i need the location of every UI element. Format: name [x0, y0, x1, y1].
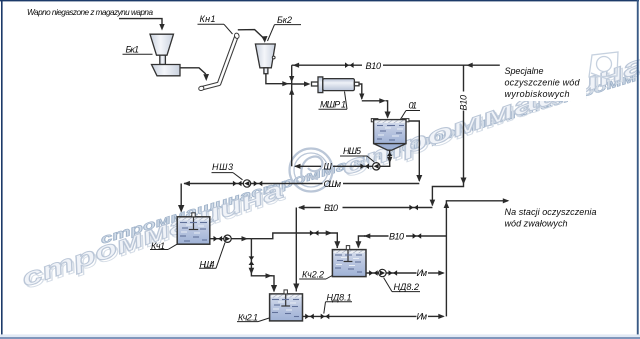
svg-text:Ш: Ш — [324, 162, 333, 172]
svg-text:Им: Им — [417, 312, 428, 322]
svg-text:Кч1: Кч1 — [151, 241, 165, 251]
svg-text:НШ5: НШ5 — [343, 146, 362, 156]
svg-text:В10: В10 — [459, 95, 469, 111]
svg-text:НШ4: НШ4 — [200, 259, 215, 269]
svg-text:wyrobiskowych: wyrobiskowych — [505, 89, 570, 99]
svg-text:В10: В10 — [389, 231, 404, 241]
svg-text:01: 01 — [409, 101, 418, 111]
svg-text:В10: В10 — [366, 61, 382, 71]
svg-text:Кч2.2: Кч2.2 — [302, 269, 324, 279]
svg-text:В10: В10 — [324, 203, 338, 213]
svg-text:МШР 1: МШР 1 — [320, 99, 346, 109]
svg-text:oczyszczenie wód: oczyszczenie wód — [505, 77, 581, 87]
svg-text:Бк2: Бк2 — [277, 15, 292, 25]
svg-text:НД8.2: НД8.2 — [394, 282, 420, 292]
svg-text:Na stacji oczyszczenia: Na stacji oczyszczenia — [505, 207, 597, 217]
svg-text:Wapno niegaszone z magazynu wa: Wapno niegaszone z magazynu wapna — [27, 8, 153, 17]
svg-text:wód zwałowych: wód zwałowych — [505, 219, 568, 229]
svg-text:Бк1: Бк1 — [126, 45, 140, 55]
svg-text:НД8.1: НД8.1 — [327, 292, 352, 302]
svg-text:Кн1: Кн1 — [200, 14, 216, 24]
svg-text:ОШм: ОШм — [324, 179, 342, 189]
svg-text:Specjalne: Specjalne — [505, 66, 544, 76]
svg-text:Кч2.1: Кч2.1 — [238, 313, 258, 323]
svg-text:Им: Им — [417, 268, 428, 278]
svg-text:НШ3: НШ3 — [212, 162, 233, 172]
